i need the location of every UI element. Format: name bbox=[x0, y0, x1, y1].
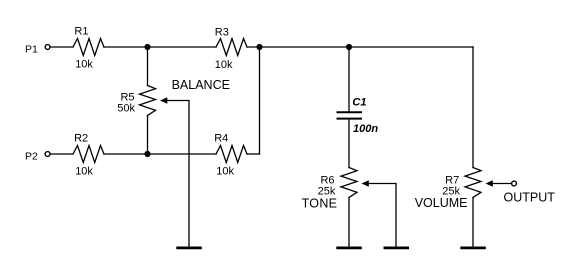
svg-text:50k: 50k bbox=[117, 103, 135, 115]
svg-text:OUTPUT: OUTPUT bbox=[504, 190, 556, 204]
svg-text:R1: R1 bbox=[74, 26, 88, 38]
svg-text:R4: R4 bbox=[214, 133, 228, 145]
svg-text:C1: C1 bbox=[352, 96, 366, 108]
svg-text:10k: 10k bbox=[216, 166, 234, 178]
svg-text:10k: 10k bbox=[75, 166, 93, 178]
svg-text:10k: 10k bbox=[75, 59, 93, 71]
svg-text:R2: R2 bbox=[74, 133, 88, 145]
svg-text:TONE: TONE bbox=[302, 196, 338, 210]
svg-text:VOLUME: VOLUME bbox=[415, 196, 468, 210]
svg-text:R3: R3 bbox=[215, 27, 229, 39]
svg-text:10k: 10k bbox=[215, 59, 233, 71]
svg-text:BALANCE: BALANCE bbox=[172, 78, 230, 92]
svg-text:P1: P1 bbox=[25, 43, 38, 55]
svg-text:100n: 100n bbox=[353, 123, 378, 135]
svg-text:P2: P2 bbox=[25, 150, 38, 162]
